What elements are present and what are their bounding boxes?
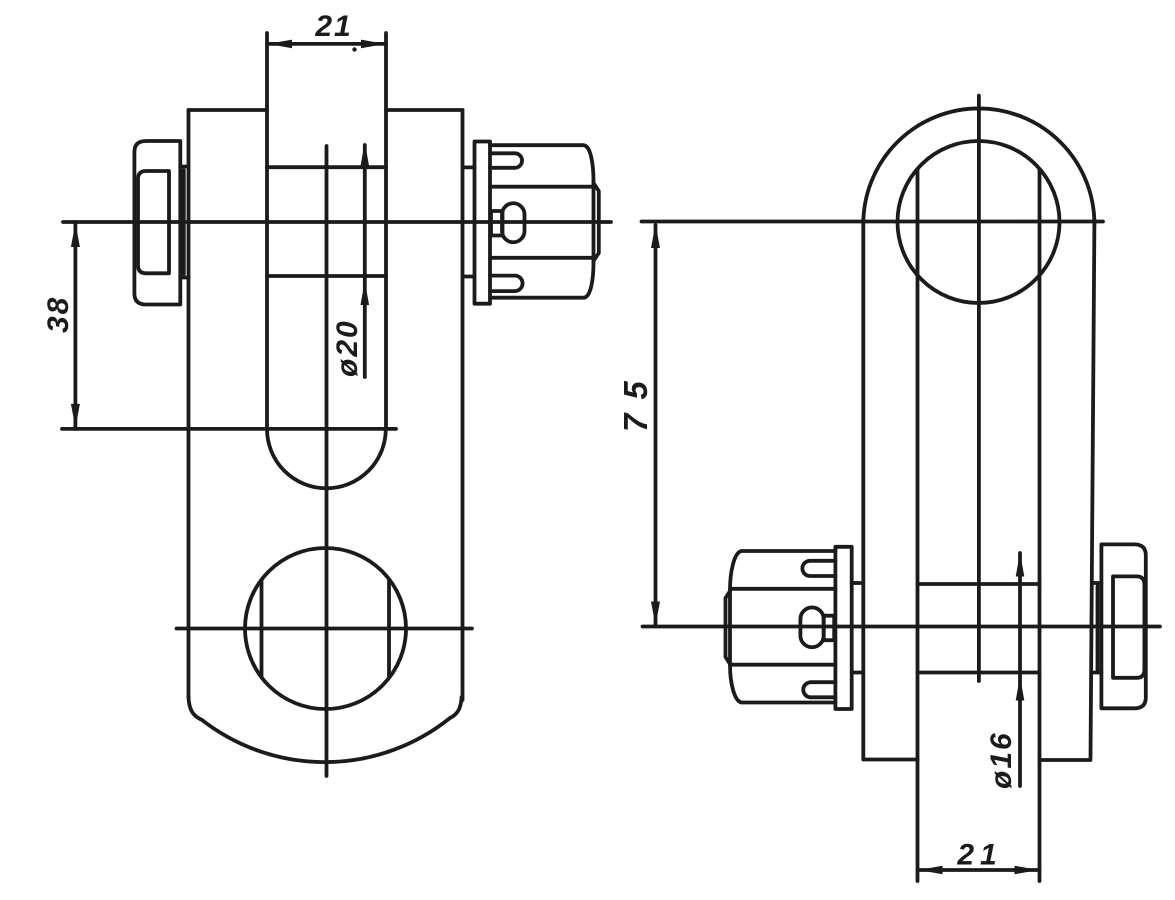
svg-text:ø16: ø16	[985, 731, 1018, 789]
svg-text:21: 21	[956, 839, 1002, 872]
svg-text:75: 75	[617, 367, 654, 432]
svg-text:38: 38	[42, 296, 75, 333]
svg-text:ø20: ø20	[331, 319, 364, 377]
svg-text:21: 21	[314, 10, 352, 43]
